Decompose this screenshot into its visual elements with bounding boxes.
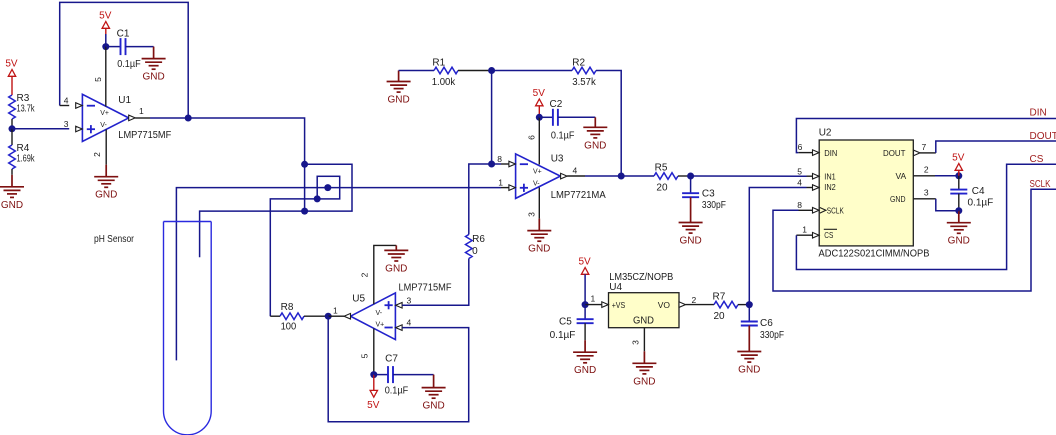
junction divider node: [9, 125, 16, 132]
svg-text:1: 1: [498, 178, 503, 188]
svg-text:5: 5: [360, 353, 370, 358]
svg-text:GND: GND: [142, 72, 164, 83]
wire node to R2: [492, 70, 572, 72]
wire R1 to node: [458, 70, 492, 72]
wire C2 to ground: [558, 116, 595, 118]
svg-text:GND: GND: [387, 95, 409, 106]
svg-text:5: 5: [797, 166, 802, 176]
svg-text:3: 3: [407, 295, 412, 305]
wire R5 to C3 node: [678, 175, 691, 177]
wire 5V to C4 node: [958, 170, 960, 176]
svg-text:U4: U4: [609, 282, 622, 293]
svg-text:1.00k: 1.00k: [432, 77, 456, 88]
svg-text:3: 3: [924, 187, 929, 197]
svg-text:DOUT: DOUT: [883, 148, 906, 158]
wire guard outer ring: [305, 164, 352, 211]
svg-text:7: 7: [922, 142, 927, 152]
svg-text:U2: U2: [819, 128, 832, 139]
wire U5 pin2: [374, 245, 397, 304]
svg-text:3: 3: [527, 212, 537, 217]
svg-text:GND: GND: [574, 365, 596, 376]
svg-text:LM35CZ/NOPB: LM35CZ/NOPB: [609, 272, 673, 283]
svg-text:5: 5: [93, 77, 103, 82]
wire U1 output net: [150, 118, 305, 211]
svg-text:R8: R8: [281, 302, 294, 313]
junction C3 node: [687, 173, 694, 180]
svg-text:3: 3: [64, 119, 69, 129]
wire R6 top to U3 pin8 net: [469, 164, 501, 235]
resistor R6: [466, 234, 486, 259]
wire DIN net: [796, 119, 1056, 153]
wire U3 pin3: [538, 188, 540, 219]
power 5V symbol at U5 pin5: [367, 390, 380, 411]
svg-text:1: 1: [333, 306, 338, 316]
svg-text:0.1µF: 0.1µF: [385, 386, 409, 397]
wire 5V to C5 node: [584, 274, 586, 304]
resistor R7: [713, 292, 739, 323]
junction U5 output: [325, 313, 332, 320]
svg-text:3.57k: 3.57k: [572, 77, 596, 88]
junction R2 feedback node: [618, 173, 625, 180]
svg-text:GND: GND: [633, 376, 655, 387]
ground at R1: [387, 71, 411, 106]
wire R7 to C6 node: [738, 304, 749, 306]
resistor R8: [280, 302, 304, 333]
svg-text:V-: V-: [100, 122, 107, 129]
ground under U3 pin3: [527, 219, 551, 255]
svg-text:0.1µF: 0.1µF: [550, 330, 576, 341]
wire U1 pin5: [105, 47, 107, 107]
wire CS net: [796, 164, 1056, 269]
svg-text:GND: GND: [1, 200, 23, 211]
ground at C3: [679, 197, 703, 246]
svg-text:4: 4: [797, 177, 802, 187]
wire node to C3: [690, 176, 692, 193]
wire U3 pin8 stub: [501, 163, 509, 165]
wire R8 to U5 output node: [304, 315, 328, 317]
wire R3 to node: [11, 119, 13, 129]
svg-text:CS: CS: [824, 230, 833, 240]
wire C4 to bottom node: [958, 194, 960, 211]
svg-text:U1: U1: [118, 95, 131, 106]
capacitor C4: [950, 186, 993, 209]
wire node to C6: [748, 305, 750, 322]
svg-text:4: 4: [573, 166, 578, 176]
svg-text:1: 1: [139, 106, 144, 116]
svg-text:8: 8: [797, 200, 802, 210]
wire U5 output stub: [328, 315, 344, 317]
svg-text:0.1µF: 0.1µF: [551, 131, 575, 142]
wire 5V to C1 node: [105, 28, 107, 34]
svg-text:GND: GND: [633, 316, 654, 327]
svg-text:2: 2: [924, 164, 929, 174]
junction guard lower: [301, 208, 308, 215]
svg-text:2: 2: [360, 272, 370, 277]
svg-text:5V: 5V: [99, 11, 112, 22]
svg-text:C1: C1: [117, 28, 130, 39]
svg-text:5V: 5V: [578, 257, 591, 268]
svg-text:GND: GND: [679, 236, 701, 247]
capacitor C5: [550, 316, 594, 341]
svg-text:V-: V-: [376, 310, 383, 317]
wire DOUT stub: [920, 152, 936, 154]
label C3 ground cover: [0, 0, 1, 1]
wire U3 output net: [585, 175, 654, 177]
junction U1 output / feedback: [185, 115, 192, 122]
wire U5 feedback: [328, 316, 469, 422]
svg-text:5V: 5V: [533, 88, 546, 99]
svg-text:V+: V+: [376, 322, 385, 329]
ground at C4: [947, 211, 971, 247]
wire ADC GND to C4 node: [936, 199, 959, 211]
svg-text:C7: C7: [385, 354, 398, 365]
svg-text:GND: GND: [422, 401, 444, 412]
svg-text:GND: GND: [584, 140, 606, 151]
svg-text:V-: V-: [533, 180, 540, 187]
ground at C2: [583, 117, 607, 151]
ground under R4: [0, 175, 24, 211]
junction C2 node: [536, 114, 543, 121]
junction inner ring corner: [314, 195, 321, 202]
svg-text:R4: R4: [17, 143, 30, 154]
svg-text:DIN: DIN: [824, 148, 837, 158]
wire SCLK stub: [799, 209, 813, 211]
wire ADC IN2 stub: [807, 187, 813, 189]
svg-text:DIN: DIN: [1030, 108, 1047, 119]
wire divider node to U1 pin3: [12, 128, 69, 130]
wire inner ring to R8 net: [270, 199, 317, 316]
svg-text:1.69k: 1.69k: [17, 154, 36, 165]
svg-text:V+: V+: [533, 169, 542, 176]
wire 5V to C2 node: [538, 106, 540, 118]
wire U4 GND pin: [643, 328, 645, 352]
resistor R4: [9, 143, 36, 169]
ground at C1: [142, 47, 166, 83]
capacitor C3: [682, 189, 726, 212]
junction C7 node: [370, 371, 377, 378]
svg-text:R1: R1: [432, 58, 445, 69]
svg-text:1: 1: [802, 225, 807, 235]
svg-text:LMP7715MF: LMP7715MF: [399, 282, 452, 293]
capacitor C7: [385, 354, 409, 397]
ground at U5 pin2: [384, 245, 408, 274]
svg-text:VO: VO: [658, 300, 671, 310]
svg-text:3: 3: [631, 340, 641, 345]
svg-text:U3: U3: [551, 154, 564, 165]
svg-text:SCLK: SCLK: [827, 205, 844, 215]
wire U1 pin4 stub: [60, 105, 69, 107]
wire ADC GND pin: [913, 198, 936, 200]
wire DOUT net: [936, 141, 1056, 153]
svg-text:V+: V+: [100, 110, 109, 117]
ground at C7: [422, 375, 446, 412]
wire 5V to C1 node b: [105, 34, 107, 47]
guard inner ring: [317, 176, 340, 199]
power 5V symbol for U1/C1: [99, 11, 112, 29]
junction C4 top node: [955, 172, 962, 179]
svg-text:GND: GND: [738, 365, 760, 376]
svg-text:C2: C2: [550, 99, 563, 110]
svg-text:0: 0: [472, 246, 478, 257]
junction guard upper: [301, 161, 308, 168]
svg-text:330pF: 330pF: [702, 200, 726, 211]
resistor R3: [9, 93, 36, 119]
svg-text:2: 2: [92, 152, 102, 157]
temperature sensor U4 LM35: [602, 293, 686, 328]
wire U3 output stub: [567, 175, 585, 177]
svg-text:2: 2: [692, 295, 697, 305]
svg-text:SCLK: SCLK: [1030, 179, 1051, 190]
svg-text:GND: GND: [385, 263, 407, 274]
junction inner ring top: [324, 184, 331, 191]
svg-text:0.1µF: 0.1µF: [117, 59, 141, 70]
wire VA to C4 node: [935, 175, 959, 177]
wire DIN stub: [798, 152, 812, 154]
svg-text:13.7k: 13.7k: [17, 104, 36, 115]
resistor R5: [654, 162, 678, 193]
svg-text:0.1µF: 0.1µF: [968, 198, 994, 209]
svg-text:GND: GND: [948, 236, 970, 247]
wire C1 to ground: [126, 46, 154, 48]
ground under U1 pin2: [94, 165, 118, 201]
op-amp U1: [76, 94, 136, 141]
wire U5 pin5: [373, 328, 375, 374]
junction C5 node: [582, 301, 589, 308]
wire 5V to R3: [11, 76, 13, 95]
svg-text:R5: R5: [655, 162, 668, 173]
junction R1/R2 node: [488, 67, 495, 74]
wire node to R4: [11, 129, 13, 145]
svg-text:IN1: IN1: [824, 171, 836, 181]
resistor R2: [572, 58, 597, 88]
svg-text:IN2: IN2: [824, 182, 836, 192]
wire U5 pin3 net: [402, 259, 469, 306]
svg-text:8: 8: [497, 154, 502, 164]
svg-text:R3: R3: [17, 93, 30, 104]
svg-text:C4: C4: [972, 186, 985, 197]
wire U1 output: [135, 117, 150, 119]
svg-text:pH Sensor: pH Sensor: [94, 234, 135, 245]
wire C7 to ground: [393, 374, 434, 376]
ground under U4: [632, 351, 656, 387]
wire probe electrode net: [176, 188, 501, 361]
junction C4 bottom node: [955, 207, 962, 214]
pH sensor probe: [164, 222, 212, 435]
junction C1 node: [102, 43, 109, 50]
ground at C6: [737, 326, 761, 376]
wire R2 to output net: [596, 71, 621, 177]
svg-text:LMP7715MF: LMP7715MF: [118, 130, 171, 141]
svg-text:CS: CS: [1030, 154, 1044, 165]
resistor R1: [432, 58, 458, 88]
wire C5 node to U4 +VS: [585, 304, 602, 306]
ADC U2: [813, 140, 921, 246]
svg-text:VA: VA: [895, 171, 906, 181]
svg-text:DOUT: DOUT: [1030, 131, 1056, 142]
wire U3 pin6: [538, 117, 540, 164]
svg-text:100: 100: [281, 322, 297, 333]
svg-text:ADC122S021CIMM/NOPB: ADC122S021CIMM/NOPB: [819, 249, 930, 260]
wire U1 pin2: [105, 129, 107, 164]
svg-text:R6: R6: [472, 234, 485, 245]
wire ADC IN1 stub: [807, 175, 813, 177]
svg-text:1: 1: [591, 294, 596, 304]
wire C1 node to C1: [106, 46, 121, 48]
svg-text:GND: GND: [890, 194, 906, 204]
svg-text:4: 4: [64, 96, 69, 106]
power 5V symbol for C4: [952, 153, 965, 171]
svg-text:330pF: 330pF: [760, 330, 784, 341]
wire node to C7: [374, 374, 388, 376]
power 5V symbol for R3: [5, 59, 18, 77]
op-amp U3: [509, 154, 567, 199]
svg-text:+VS: +VS: [612, 300, 626, 310]
wire C3 node to ADC IN1: [691, 175, 807, 177]
capacitor C6: [741, 318, 784, 341]
wire C2 node to C2: [539, 116, 553, 118]
op-amp U5: [344, 293, 402, 340]
svg-text:5V: 5V: [5, 59, 18, 70]
wire VA stub: [913, 175, 935, 177]
wire node to 5V arrow: [373, 375, 375, 391]
wire C6 node up to ADC IN2: [749, 188, 806, 305]
svg-text:U5: U5: [352, 293, 365, 304]
svg-text:R7: R7: [713, 292, 726, 303]
wire node to C4: [958, 176, 960, 190]
wire U4 VO to R7: [686, 304, 715, 306]
wire node to C5: [584, 305, 586, 320]
wire R4 to ground: [11, 169, 13, 175]
wire C5 to ground: [584, 323, 586, 340]
svg-text:LMP7721MA: LMP7721MA: [551, 190, 606, 201]
wire CS stub: [796, 234, 812, 236]
wire ground to R1: [399, 70, 434, 72]
wire U1 feedback loop: [60, 2, 189, 118]
ground at C5: [573, 340, 597, 376]
svg-text:GND: GND: [95, 190, 117, 201]
wire U3 pin1 stub: [501, 187, 509, 189]
wire to R8: [270, 315, 280, 317]
wire shield to probe: [200, 211, 305, 257]
svg-text:20: 20: [714, 311, 726, 322]
svg-text:6: 6: [798, 142, 803, 152]
svg-text:4: 4: [407, 318, 412, 328]
wire node down to U3 pin8: [491, 71, 493, 165]
capacitor C1: [117, 28, 141, 70]
svg-text:R2: R2: [572, 58, 585, 69]
svg-text:20: 20: [656, 182, 668, 193]
svg-text:C6: C6: [760, 318, 773, 329]
power 5V symbol for C2: [533, 88, 546, 106]
capacitor C2: [550, 99, 575, 142]
svg-text:5V: 5V: [367, 400, 380, 411]
junction U3 pin8 node: [488, 161, 495, 168]
svg-text:C3: C3: [702, 189, 715, 200]
svg-text:GND: GND: [528, 244, 550, 255]
svg-text:6: 6: [527, 135, 537, 140]
svg-text:C5: C5: [559, 316, 572, 327]
wire SCLK net: [773, 189, 1056, 291]
junction C6 node: [746, 301, 753, 308]
power 5V symbol for U4/C5: [578, 257, 591, 275]
svg-text:5V: 5V: [952, 153, 965, 164]
